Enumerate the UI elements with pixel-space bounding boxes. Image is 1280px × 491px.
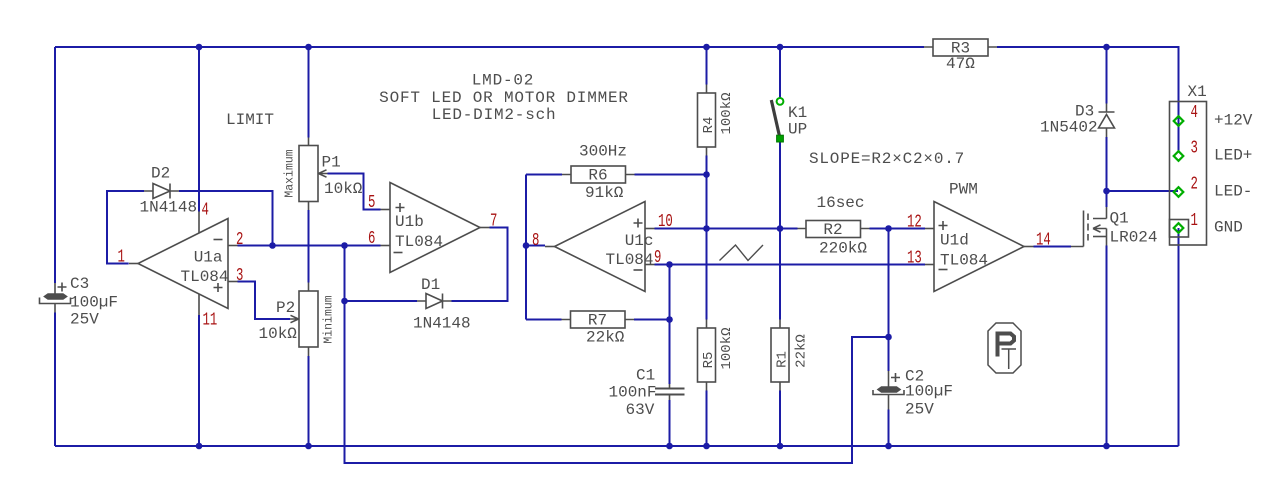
wire R7 right to C1 node [634,319,670,321]
op-amp U1a pin 1 stub [129,263,138,265]
wire R1 bottom to GND rail [779,391,781,447]
svg-text:C1: C1 [636,367,655,385]
svg-text:+12V: +12V [1214,112,1253,130]
node GND rail / R5 bottom [703,443,710,450]
svg-text:X1: X1 [1188,83,1207,101]
op-amp U1b pin 5 stub [381,209,391,211]
svg-text:2: 2 [236,229,243,250]
switch K1 blade [771,100,779,137]
node GND rail / R1 bottom [777,443,784,450]
resistor R4 body [698,93,716,147]
node +12V / K1 top [777,44,784,51]
svg-text:1N4148: 1N4148 [413,315,471,333]
op-amp U1a TL084 (points left) [138,219,228,309]
logo PT box [988,323,1021,373]
op-amp U1a pin 11 stub [198,294,200,315]
wire U1c pin8 stub [526,245,545,247]
capacitor C2 bottom plate bracket [873,390,904,395]
wire +12V to R4 top [706,47,708,85]
svg-text:220kΩ: 220kΩ [819,240,867,258]
op-amp U1a pin 4 stub [198,212,200,233]
wire R7 left lead [526,319,562,321]
svg-text:63V: 63V [626,401,655,419]
svg-text:100nF: 100nF [609,384,657,402]
svg-text:D1: D1 [421,276,440,294]
svg-text:SLOPE=R2×C2×0.7: SLOPE=R2×C2×0.7 [809,150,965,168]
resistor R3 body [933,39,988,56]
wire D1 anode branch [345,300,418,302]
svg-text:14: 14 [1036,230,1051,251]
capacitor C2 top plate (plus) [878,387,900,392]
op-amp U1c pin 9 stub [645,264,655,266]
wire LED- node to X1 pin2 [1107,190,1179,192]
connector X1 pin1 inner box [1170,220,1189,238]
node pin12 net / C2 [885,225,892,232]
svg-text:12: 12 [907,212,922,233]
svg-text:TL084: TL084 [395,233,443,251]
transistor Q1 drain stub [1093,207,1107,219]
transistor Q1 source stub [1093,236,1107,238]
node D2 branch on pin2 net [269,242,276,249]
potentiometer P2 body [299,291,318,347]
op-amp U1d pin 12 stub [925,228,934,230]
op-amp U1d minus sign [939,269,948,271]
svg-text:100kΩ: 100kΩ [719,92,735,134]
op-amp U1a pin 2 stub [228,245,238,247]
node GND rail / P2 bottom [305,443,312,450]
potentiometer P1 body [299,146,318,202]
wire D1 cathode to U1b pin7 [452,228,508,302]
svg-text:47Ω: 47Ω [946,55,975,73]
capacitor C1 plates [655,389,685,395]
potentiometer P1 leads [308,138,310,211]
wire C2 node up to pin12 net [888,229,890,372]
node pin10 net / R4-R5 [703,225,710,232]
svg-text:K1: K1 [788,104,807,122]
wire LED- node to Q1 drain [1106,191,1108,207]
wire net U1c pin10 to R2 left [655,228,798,230]
op-amp U1b TL084 (points right) [390,183,480,273]
svg-text:U1c: U1c [625,232,654,250]
node pin9 net / R7 branch [666,261,673,268]
op-amp U1b pin 7 stub [480,227,490,229]
svg-text:22kΩ: 22kΩ [794,334,810,368]
wire U1d pin14 output to Q1 gate [1034,246,1072,248]
svg-text:1N4148: 1N4148 [140,199,198,217]
wire net U1a pin2 to U1b pin6 [238,245,381,247]
wire left +12V border down to C3 [54,47,56,283]
svg-text:GND: GND [1214,219,1243,237]
op-amp U1b minus sign [394,252,403,254]
op-amp U1d plus sign [939,221,948,230]
wire net U1c pin9 to U1d pin13 [655,264,926,266]
diode D1 1N4148 [417,294,452,309]
svg-text:10kΩ: 10kΩ [259,325,298,343]
svg-text:P2: P2 [276,299,295,317]
connector pin X1-3 diamond [1174,151,1184,161]
svg-text:UP: UP [788,121,807,139]
node +12V / P1 top [305,44,312,51]
capacitor C3 leads [54,283,56,313]
svg-text:P1: P1 [322,154,341,172]
connector pin X1-4 diamond [1174,116,1184,126]
svg-text:25V: 25V [70,311,99,329]
node GND rail / U1a pin11 [196,443,203,450]
wire P1 wiper to U1b pin5 [328,174,381,210]
resistor R6 leads [562,174,635,176]
wire D3 anode to LED- node [1106,137,1108,191]
svg-text:LMD-02: LMD-02 [472,72,534,90]
svg-text:1: 1 [118,247,125,268]
node R6 right / R4 bottom [703,171,710,178]
svg-text:R5: R5 [701,352,717,369]
node +12V / D3 cathode [1103,44,1110,51]
potentiometer P1 wiper arrow [318,170,328,177]
logo P glyph [998,334,1015,357]
svg-text:4: 4 [202,200,209,221]
transistor Q1 body arrow [1093,225,1107,246]
connector X1 housing [1170,102,1207,246]
svg-text:10kΩ: 10kΩ [324,180,363,198]
svg-text:TL084: TL084 [940,252,988,270]
potentiometer P2 leads [308,283,310,357]
op-amp U1c pin 10 stub [645,228,655,230]
resistor R1 body [771,328,789,382]
node R7 right / C1 top [666,316,673,323]
transistor Q1 channel dashes [1087,214,1089,241]
resistor R7 leads [562,319,635,321]
op-amp U1a pin 3 stub [228,281,238,283]
diode D3 1N5402 (points up) [1099,104,1115,138]
svg-text:22kΩ: 22kΩ [586,329,625,347]
capacitor C3 plus sign [58,283,67,292]
svg-text:1N5402: 1N5402 [1040,119,1098,137]
op-amp U1a minus sign [214,239,223,241]
wire pin6 node down and across bottom to C2 node [345,246,889,464]
svg-text:U1b: U1b [395,213,424,231]
op-amp U1d pin 14 stub [1024,246,1034,248]
wire +12V to K1 top [779,47,781,98]
svg-text:R7: R7 [588,312,607,330]
node GND rail / Q1 source [1103,443,1110,450]
node D1 branch on pin6 net [341,242,348,249]
svg-text:3: 3 [236,265,243,286]
svg-text:100kΩ: 100kΩ [719,327,735,369]
svg-text:D2: D2 [151,165,170,183]
resistor R2 leads [798,228,870,230]
svg-text:8: 8 [532,230,539,251]
capacitor C3 top plate (plus) [45,294,67,299]
op-amp U1c plus sign [634,219,643,228]
capacitor C2 plus sign [891,373,900,382]
node pin10 net / K1-R1 [777,225,784,232]
svg-text:2: 2 [1191,174,1198,195]
wire R5 bottom to GND rail [706,391,708,447]
svg-text:R2: R2 [823,221,842,239]
op-amp U1d pin 13 stub [925,264,934,266]
svg-text:SOFT LED OR MOTOR DIMMER: SOFT LED OR MOTOR DIMMER [379,89,629,107]
diode D2 1N4148 [144,184,179,199]
resistor R2 body [806,221,861,238]
waveform sawtooth symbol [720,245,764,261]
op-amp U1a plus sign [214,283,223,292]
svg-text:91kΩ: 91kΩ [585,184,624,202]
wire U1a pin1 to D2 feedback loop [107,191,273,264]
wire U1c pin8 vertical R6-R7 [525,175,527,320]
connector pin X1-2 diamond [1174,187,1184,197]
op-amp U1c minus sign [634,269,643,271]
wire C3 minus to GND rail [54,313,56,447]
svg-text:13: 13 [907,248,922,269]
node LED- / D3 / Q1 drain [1103,188,1110,195]
op-amp U1b plus sign [396,203,405,212]
wire Q1 source to GND rail [1106,246,1108,447]
wire U1a pin4 to +12V [198,47,200,212]
svg-text:6: 6 [368,228,375,249]
svg-text:LED-: LED- [1214,183,1252,201]
svg-text:Minimum: Minimum [323,295,336,343]
wire U1a pin3 to P2 wiper [238,282,291,320]
resistor R6 body [571,166,626,183]
svg-text:1: 1 [1191,210,1198,231]
svg-text:3: 3 [1191,138,1198,159]
svg-text:LED+: LED+ [1214,147,1252,165]
resistor R5 body [698,328,716,382]
wire +12V to P1 top [308,47,310,138]
wire P2 bottom to GND rail [308,356,310,446]
wire +12V to D3 cathode [1106,47,1108,104]
wire C2 bottom to GND rail [888,410,890,447]
svg-text:C3: C3 [70,275,89,293]
node U1c pin8 junction [523,242,530,249]
wire pin9 node to R7 node [669,265,671,320]
node +12V / R4 top [703,44,710,51]
wire C1 bottom to GND rail [669,400,671,446]
switch K1 top contact circle [777,98,784,105]
svg-text:PWM: PWM [949,181,978,199]
svg-text:TL084: TL084 [605,251,653,269]
resistor R7 body [571,311,626,328]
node D1 anode junction [341,298,348,305]
wire R6 right to R4 node [635,174,707,176]
op-amp U1c pin 8 stub [545,246,555,248]
node +12V / U1a pin4 [196,44,203,51]
svg-text:R4: R4 [701,117,717,134]
node GND rail / C1 bottom [666,443,673,450]
wire R7 node to C1 top [669,320,671,385]
op-amp U1d TL084 (points right) [934,202,1024,292]
resistor R4 leads [706,85,708,156]
switch K1 bottom contact square [777,135,784,142]
svg-text:Q1: Q1 [1110,210,1129,228]
wire U1a pin11 to GND [198,315,200,446]
wire P1 bottom to P2 top [308,210,310,283]
resistor R1 leads [779,320,781,391]
capacitor C1 leads [669,384,671,400]
svg-text:7: 7 [490,211,497,232]
svg-text:TL084: TL084 [180,268,228,286]
wire R4 bottom to R5 top [706,156,708,320]
capacitor C2 leads [888,371,890,410]
node C2 plus branch [885,334,892,341]
capacitor C3 bottom plate bracket [40,298,71,304]
transistor Q1 gate bar [1071,211,1084,247]
svg-text:R6: R6 [588,167,607,185]
resistor R3 leads [924,46,997,48]
potentiometer P2 wiper arrow [290,315,299,322]
svg-text:U1d: U1d [940,232,969,250]
svg-text:300Hz: 300Hz [579,143,627,161]
wire R2 right to U1d pin12 [870,228,926,230]
svg-text:R1: R1 [774,351,790,368]
wire X1 pin1 GND drop [1178,228,1180,446]
op-amp U1b pin 6 stub [381,245,391,247]
node GND rail / C2 bottom [885,443,892,450]
svg-text:100µF: 100µF [905,383,953,401]
svg-text:16sec: 16sec [817,194,865,212]
resistor R5 leads [706,320,708,391]
logo T glyph [1002,349,1017,369]
connector pin X1-1 diamond [1174,223,1184,233]
svg-text:9: 9 [654,247,661,268]
wire GND bottom rail [55,445,1179,447]
svg-text:LIMIT: LIMIT [226,111,274,129]
wire +12V top rail [55,47,1179,152]
svg-text:4: 4 [1191,102,1198,123]
svg-text:25V: 25V [905,401,934,419]
wire R6 left lead [526,174,562,176]
svg-text:11: 11 [203,310,218,331]
svg-text:Maximum: Maximum [284,149,297,197]
wire K1 bottom to R1 top [779,142,781,320]
svg-text:LR024: LR024 [1110,229,1158,247]
svg-text:100µF: 100µF [70,294,118,312]
svg-text:10: 10 [658,211,673,232]
svg-text:5: 5 [368,192,375,213]
op-amp U1c TL084 (points left) [555,202,646,292]
svg-text:U1a: U1a [194,249,223,267]
svg-text:LED-DIM2-sch: LED-DIM2-sch [432,106,557,124]
